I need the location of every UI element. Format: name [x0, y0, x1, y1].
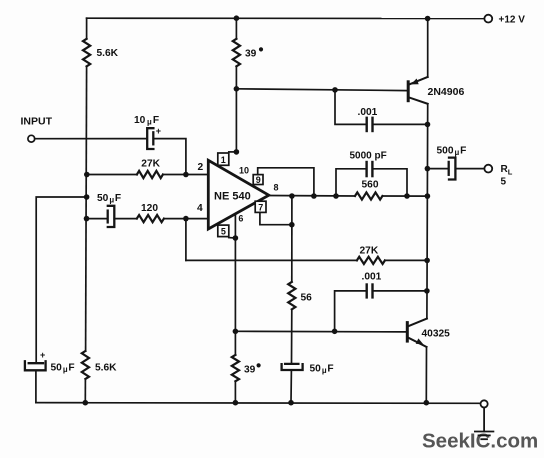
wire base of Q1: [236, 89, 407, 91]
wire input line: [35, 138, 146, 140]
svg-text:.001: .001: [358, 107, 378, 118]
wire 5000pF loop left: [336, 169, 366, 196]
node junction .001 upper / Q1 collector: [425, 122, 431, 128]
pin 9 box: [253, 175, 263, 185]
wire base of Q2: [235, 330, 406, 333]
wire Q2 emitter to rail: [425, 347, 427, 403]
capacitor 5000pF: [367, 162, 373, 176]
wire left bias vertical middle: [86, 66, 87, 351]
node junction Q2 base / .001 lower branch: [332, 329, 338, 335]
resistor 560: [355, 192, 382, 199]
svg-text:5000 pF: 5000 pF: [350, 151, 387, 162]
capacitor 10uF: [147, 128, 153, 149]
node ground terminal: [481, 400, 488, 407]
pin 5 box: [218, 225, 229, 237]
svg-text:7: 7: [258, 202, 263, 212]
svg-text:40325: 40325: [422, 329, 451, 340]
node junction 120 / pin4 / feedback: [183, 216, 189, 222]
node junction ground rail / 39* lower: [233, 400, 239, 406]
wire pin2 line left: [87, 174, 137, 176]
capacitor .001 lower: [367, 285, 373, 298]
wire 10uF to pin2 corner: [153, 139, 186, 175]
node junction collector line / RL tap: [425, 166, 431, 172]
wire output line pin8: [269, 195, 355, 198]
svg-text:5.6K: 5.6K: [95, 363, 117, 374]
wire 50uF bottom-left to rail: [36, 370, 85, 402]
resistor 56: [288, 282, 295, 309]
wire pin9 loop: [258, 168, 314, 196]
wire left bias vertical upper: [86, 18, 88, 39]
wire pin4 line right: [164, 218, 209, 220]
svg-text:INPUT: INPUT: [21, 115, 53, 127]
svg-text:NE 540: NE 540: [214, 191, 251, 203]
wire Q1 collector vertical: [426, 104, 429, 319]
svg-text:10μF: 10μF: [134, 115, 159, 127]
wire feedback line: [186, 259, 357, 261]
node junction .001 lower / collector line: [424, 288, 430, 294]
wire left bias vertical bottom: [84, 379, 86, 403]
pin 7 box: [255, 201, 266, 212]
svg-text:56: 56: [301, 293, 313, 304]
capacitor 50uF bottom-left: [25, 361, 46, 370]
svg-text:.001: .001: [362, 272, 382, 283]
wire feedback branch vertical: [185, 219, 187, 261]
node junction bias line / pin2 line: [84, 172, 90, 178]
node junction output / 5000pF loop right: [404, 193, 410, 199]
node junction top rail / 39* branch: [234, 15, 240, 21]
wire pin6 stub and lower center vertical: [234, 214, 236, 355]
svg-text:5: 5: [221, 227, 226, 237]
resistor 120: [137, 215, 164, 222]
wire .001 lower branch: [335, 291, 366, 331]
svg-text:+: +: [156, 126, 161, 136]
svg-text:2N4906: 2N4906: [428, 86, 465, 98]
wire 50uF mid to rail: [290, 370, 292, 403]
node junction 27K lower / collector line: [424, 258, 430, 264]
node junction top rail / Q1 emitter: [425, 16, 431, 22]
node junction bias line / 50uF branch: [84, 194, 90, 200]
node junction 10uF / 27K / pin2: [183, 172, 189, 178]
capacitor .001 upper: [367, 118, 373, 131]
svg-text:+12 V: +12 V: [499, 15, 526, 26]
svg-text:500μF: 500μF: [437, 146, 467, 158]
wire 50uF to 120: [114, 218, 137, 220]
svg-text:50μF: 50μF: [51, 363, 75, 375]
svg-text:27K: 27K: [141, 158, 160, 169]
svg-text:2: 2: [198, 162, 204, 173]
wire .001 upper branch: [335, 90, 366, 125]
wire 5000pF loop right: [373, 169, 407, 196]
svg-text:50μF: 50μF: [97, 193, 121, 205]
transistor Q1 2N4906: [407, 77, 428, 104]
node junction ground rail / 5.6K lower: [83, 400, 89, 406]
svg-text:1: 1: [221, 155, 226, 165]
node junction pin7 / 56 branch: [289, 222, 295, 228]
node junction Q2 base / center vertical: [233, 329, 239, 335]
wire .001 upper right: [373, 123, 427, 125]
capacitor 500uF: [449, 158, 456, 180]
node junction output / 5000pF loop left: [333, 193, 339, 199]
svg-text:120: 120: [141, 203, 158, 214]
resistor 27K lower: [357, 257, 385, 264]
wire 500uF to RL terminal: [455, 168, 484, 170]
node junction ground rail / Q2 emitter: [424, 400, 430, 406]
node junction bias line / pin4 line: [84, 216, 90, 222]
node input terminal: [28, 135, 35, 142]
node junction ground rail / 50uF mid: [288, 400, 294, 406]
resistor 39* upper: [233, 39, 240, 67]
wire top supply rail: [87, 17, 485, 19]
capacitor 50uF mid-bottom: [282, 364, 303, 370]
wire pin2 line right: [163, 174, 209, 176]
svg-text:560: 560: [362, 180, 379, 191]
node junction Q1 base / .001 upper branch: [332, 87, 338, 93]
wire RL tap: [427, 168, 448, 170]
resistor 5.6K upper: [83, 39, 90, 67]
wire pin5 to node: [229, 237, 236, 239]
svg-text:4: 4: [197, 203, 203, 214]
wire .001 lower right: [373, 290, 427, 292]
wire output line right: [382, 195, 427, 197]
svg-text:6: 6: [238, 214, 243, 224]
transistor Q2 40325: [406, 319, 427, 347]
svg-text:27K: 27K: [360, 246, 379, 257]
svg-text:50μF: 50μF: [310, 364, 334, 376]
resistor 27K upper: [137, 171, 163, 178]
wire 56 to 50uF mid: [291, 309, 293, 363]
node junction pin1 / center vertical: [234, 149, 240, 155]
ground: [475, 408, 494, 440]
wire bottom ground rail: [36, 402, 481, 405]
wire bias tap to left branch: [36, 197, 86, 362]
node junction output / collector line: [425, 193, 431, 199]
svg-text:5.6K: 5.6K: [97, 48, 119, 59]
capacitor 50uF mid-left: [108, 206, 115, 227]
resistor 5.6K lower: [82, 351, 89, 379]
node RL terminal: [484, 165, 492, 173]
wire lower center vertical bottom: [234, 381, 236, 402]
svg-text:+: +: [40, 350, 45, 360]
svg-text:9: 9: [256, 175, 261, 185]
svg-text:8: 8: [274, 183, 279, 193]
resistor 39* lower: [232, 355, 239, 381]
node +12V terminal: [484, 15, 492, 23]
wire 27K lower right: [385, 259, 427, 261]
wire center vertical upper: [235, 18, 237, 39]
svg-text:10: 10: [239, 166, 249, 176]
svg-text:SeekIC.com: SeekIC.com: [422, 429, 538, 452]
node junction output / pin7 branch: [289, 193, 295, 199]
node junction pin5-pin6 node: [233, 235, 239, 241]
wire center vertical to pin1: [235, 66, 237, 152]
wire pin7 node vertical to 56: [291, 196, 293, 282]
wire pin4 line left: [87, 218, 107, 220]
svg-text:39: 39: [245, 49, 257, 60]
svg-text:39: 39: [244, 365, 256, 376]
node junction output / pin9 loop: [311, 193, 317, 199]
wire Q1 emitter to rail: [427, 19, 429, 77]
wire pin1 to center vertical: [229, 151, 237, 153]
wire pin7 loop: [260, 212, 292, 224]
svg-text:5: 5: [501, 177, 507, 188]
pin 1 box: [218, 153, 229, 165]
op-amp U1 NE540: [208, 160, 268, 229]
node junction Q1 base wire / center vertical: [234, 86, 240, 92]
